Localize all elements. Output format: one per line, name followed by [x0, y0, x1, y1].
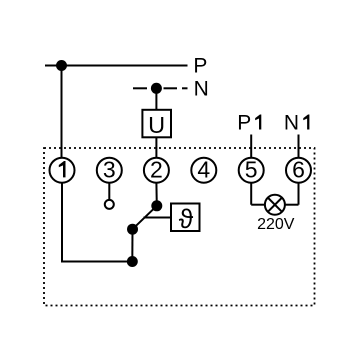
svg-text:U: U: [148, 112, 165, 138]
svg-text:N: N: [194, 77, 209, 100]
svg-text:3: 3: [103, 157, 116, 183]
svg-text:N: N: [284, 112, 299, 135]
svg-text:220V: 220V: [257, 216, 295, 233]
svg-text:4: 4: [197, 157, 210, 183]
svg-text:6: 6: [292, 157, 305, 183]
svg-text:P: P: [237, 112, 251, 135]
svg-text:P: P: [193, 54, 207, 77]
svg-text:5: 5: [245, 157, 258, 183]
svg-text:ϑ: ϑ: [179, 204, 194, 234]
svg-text:2: 2: [150, 157, 163, 183]
